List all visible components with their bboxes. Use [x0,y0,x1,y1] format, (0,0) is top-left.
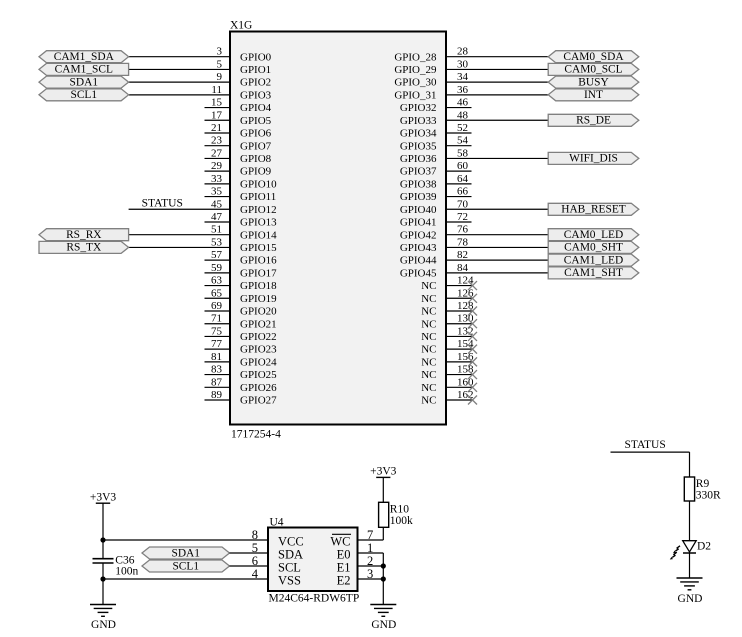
net flag CAM1_LED [548,254,639,266]
svg-text:28: 28 [457,46,469,58]
svg-text:STATUS: STATUS [142,197,183,209]
net flag WIFI_DIS [548,152,639,164]
svg-text:100n: 100n [115,566,138,578]
svg-text:GPIO22: GPIO22 [240,331,277,343]
X1G pin 27 (GPIO8) wire and labels [205,147,272,165]
svg-text:69: 69 [211,300,223,312]
wire U4 pin 2 (E1) to rail [358,565,384,567]
X1G pin 58 (GPIO36) wire and labels [400,147,548,165]
svg-text:75: 75 [211,325,223,337]
X1G pin 128 (NC) wire and labels [421,300,477,318]
power symbol +3V3 (left) [90,491,117,503]
svg-text:GPIO6: GPIO6 [240,128,272,140]
svg-text:21: 21 [211,122,222,134]
X1G pin 77 (GPIO23) wire and labels [205,338,278,356]
svg-text:GND: GND [371,619,396,631]
X1G pin 63 (GPIO18) wire and labels [205,275,278,293]
svg-text:E1: E1 [337,561,351,575]
svg-text:GPIO5: GPIO5 [240,115,272,127]
X1G pin 84 (GPIO45) wire and labels [400,262,548,280]
wire STATUS down to R9 [689,452,691,477]
junction node at E2 [381,576,386,581]
net label STATUS (right) [625,439,666,451]
svg-text:36: 36 [457,84,469,96]
svg-text:9: 9 [217,71,223,83]
X1G pin 48 (GPIO33) wire and labels [400,109,548,127]
net flag RS_TX [39,241,129,253]
net flag BUSY [548,76,639,88]
resistor R10 100k [379,502,413,527]
svg-text:34: 34 [457,71,469,83]
svg-text:GPIO2: GPIO2 [240,77,271,89]
svg-text:GPIO33: GPIO33 [400,115,437,127]
svg-text:E0: E0 [337,548,351,562]
svg-text:RS_TX: RS_TX [66,242,102,254]
svg-text:76: 76 [457,224,469,236]
X1G pin 83 (GPIO25) wire and labels [205,364,278,382]
svg-text:GPIO_29: GPIO_29 [394,64,437,76]
X1G pin 81 (GPIO24) wire and labels [205,351,278,369]
X1G pin 78 (GPIO43) wire and labels [400,236,548,254]
svg-text:GPIO21: GPIO21 [240,318,277,330]
wire R10 to U4 pin 7 (WC) [358,527,384,540]
svg-text:SDA1: SDA1 [70,76,99,88]
X1G pin 71 (GPIO21) wire and labels [205,313,277,331]
svg-text:48: 48 [457,109,469,121]
svg-text:CAM1_SHT: CAM1_SHT [564,267,623,279]
svg-text:NC: NC [421,306,436,318]
svg-text:GPIO35: GPIO35 [400,140,437,152]
X1G pin 35 (GPIO11) wire and labels [205,186,277,204]
svg-text:52: 52 [457,122,468,134]
X1G pin 124 (NC) wire and labels [421,275,477,293]
X1G pin 17 (GPIO5) wire and labels [205,109,272,127]
svg-text:BUSY: BUSY [578,76,608,88]
X1G pin 54 (GPIO35) wire and labels [400,135,472,153]
svg-text:NC: NC [421,369,436,381]
X1G pin 23 (GPIO7) wire and labels [205,135,272,153]
svg-text:81: 81 [211,351,222,363]
svg-text:GPIO20: GPIO20 [240,306,277,318]
net flag RS_DE [548,114,639,126]
net flag SDA1 [39,76,129,88]
X1G pin 69 (GPIO20) wire and labels [205,300,278,318]
svg-text:GPIO24: GPIO24 [240,356,277,368]
svg-text:47: 47 [211,211,223,223]
X1G pin 59 (GPIO17) wire and labels [205,262,278,280]
U4 part number M24C64-RDW6TP [269,592,360,604]
X1G pin 158 (NC) wire and labels [421,364,477,382]
svg-text:GPIO19: GPIO19 [240,293,277,305]
svg-text:11: 11 [211,84,222,96]
wire SCL1 flag to U4 pin 6 [230,565,269,567]
X1G pin 30 (GPIO_29) wire and labels [394,58,548,76]
net flag SCL1 [39,89,129,101]
svg-text:NC: NC [421,318,436,330]
svg-text:GPIO23: GPIO23 [240,344,277,356]
wire LED to ground [689,552,691,578]
wire +3V3 down to R10 [382,477,384,502]
svg-text:77: 77 [211,338,223,350]
svg-text:GPIO13: GPIO13 [240,217,277,229]
X1G pin 53 (GPIO15) wire and labels [129,236,278,254]
svg-text:GPIO38: GPIO38 [400,178,437,190]
svg-text:M24C64-RDW6TP: M24C64-RDW6TP [269,592,360,604]
X1G pin 64 (GPIO38) wire and labels [400,173,472,191]
X1G pin 45 (GPIO12) wire and labels [129,198,277,216]
svg-text:78: 78 [457,236,469,248]
svg-text:23: 23 [211,135,223,147]
svg-text:46: 46 [457,97,469,109]
IC X1G body [230,32,446,425]
svg-text:VCC: VCC [278,535,304,549]
svg-text:WC: WC [330,535,350,549]
wire U4 pin 3 (E2) to rail [358,578,384,580]
svg-text:70: 70 [457,198,469,210]
net label STATUS (left) [142,197,183,209]
X1G pin 130 (NC) wire and labels [421,313,477,331]
U4 pin 8 (VCC) labels [252,528,304,548]
svg-text:E2: E2 [337,574,351,588]
X1G pin 87 (GPIO26) wire and labels [205,376,278,394]
svg-text:57: 57 [211,249,223,261]
net flag HAB_RESET [548,203,639,215]
svg-text:HAB_RESET: HAB_RESET [561,204,626,216]
svg-text:CAM1_SCL: CAM1_SCL [55,64,113,76]
X1G pin 72 (GPIO41) wire and labels [400,211,472,229]
wire VSS node to U4 pin 4 [103,578,268,580]
svg-text:GPIO14: GPIO14 [240,229,277,241]
svg-text:CAM1_SDA: CAM1_SDA [54,51,115,63]
svg-text:CAM0_SCL: CAM0_SCL [564,64,622,76]
svg-text:330R: 330R [696,490,721,502]
svg-text:GPIO37: GPIO37 [400,166,437,178]
X1G pin 36 (GPIO_31) wire and labels [394,84,548,102]
svg-text:87: 87 [211,376,223,388]
svg-text:GPIO44: GPIO44 [400,255,437,267]
svg-text:NC: NC [421,280,436,292]
svg-text:INT: INT [584,89,603,101]
svg-text:U4: U4 [270,517,284,529]
svg-text:29: 29 [211,160,223,172]
svg-text:D2: D2 [697,540,711,552]
U4 pin 7 (WC) labels [330,528,373,548]
wire U4 pin 1 (E0) to ground rail [358,553,384,605]
svg-text:X1G: X1G [230,19,252,31]
svg-text:GPIO_30: GPIO_30 [394,77,437,89]
U4 pin 3 (E2) labels [337,567,374,587]
svg-text:15: 15 [211,97,223,109]
X1G pin 65 (GPIO19) wire and labels [205,287,278,305]
svg-text:17: 17 [211,109,223,121]
svg-text:GPIO34: GPIO34 [400,128,437,140]
svg-text:45: 45 [211,198,223,210]
svg-text:GPIO9: GPIO9 [240,166,272,178]
svg-text:+3V3: +3V3 [370,466,397,478]
X1G pin 3 (GPIO0) wire and labels [129,46,272,64]
X1G pin 160 (NC) wire and labels [421,376,477,394]
svg-text:GPIO25: GPIO25 [240,369,277,381]
net flag RS_RX [39,229,129,241]
svg-text:GPIO27: GPIO27 [240,395,277,407]
svg-text:RS_RX: RS_RX [66,229,102,241]
svg-text:58: 58 [457,147,469,159]
net flag INT [548,89,639,101]
wire R9 to LED D2 [689,501,691,541]
svg-text:VSS: VSS [278,574,301,588]
svg-text:27: 27 [211,147,223,159]
U4 pin 4 (VSS) labels [252,567,301,587]
IC U4 body [268,528,358,592]
svg-text:+3V3: +3V3 [90,491,117,503]
svg-text:72: 72 [457,211,468,223]
X1G pin 156 (NC) wire and labels [421,351,477,369]
svg-text:WIFI_DIS: WIFI_DIS [569,153,618,165]
svg-text:3: 3 [217,46,223,58]
X1G pin 126 (NC) wire and labels [421,287,477,305]
net flag SCL1 (to U4) [142,560,230,572]
net flag CAM0_LED [548,229,639,241]
svg-text:GPIO_28: GPIO_28 [394,51,437,63]
svg-text:NC: NC [421,356,436,368]
svg-text:GPIO43: GPIO43 [400,242,437,254]
ground symbol GND (below D2) [677,578,703,605]
svg-text:RS_DE: RS_DE [576,115,611,127]
resistor R9 330R [684,477,721,502]
X1G pin 162 (NC) wire and labels [421,389,477,407]
X1G pin 60 (GPIO37) wire and labels [400,160,472,178]
svg-text:71: 71 [211,313,222,325]
svg-text:GPIO17: GPIO17 [240,267,277,279]
U4 pin 1 (E0) labels [337,541,374,561]
svg-text:GPIO12: GPIO12 [240,204,277,216]
svg-text:59: 59 [211,262,223,274]
svg-text:CAM0_SHT: CAM0_SHT [564,242,623,254]
svg-text:GND: GND [678,593,703,605]
U4 pin 2 (E1) labels [337,554,374,574]
X1G pin 47 (GPIO13) wire and labels [205,211,278,229]
ground symbol GND (left) [90,605,116,631]
svg-text:1717254-4: 1717254-4 [231,429,281,441]
X1G pin 76 (GPIO42) wire and labels [400,224,548,242]
svg-text:5: 5 [252,541,258,555]
wire STATUS horizontal [611,451,690,453]
wire C36 down to VSS node [102,563,104,579]
svg-text:NC: NC [421,331,436,343]
svg-text:GPIO41: GPIO41 [400,217,437,229]
svg-text:GPIO15: GPIO15 [240,242,277,254]
capacitor C36 100n [93,554,139,577]
X1G pin 70 (GPIO40) wire and labels [400,198,548,216]
svg-text:R9: R9 [696,478,710,490]
net flag CAM0_SDA [548,51,639,63]
svg-text:GPIO40: GPIO40 [400,204,437,216]
X1G pin 75 (GPIO22) wire and labels [205,325,277,343]
U4 designator [270,517,284,529]
X1G pin 11 (GPIO3) wire and labels [129,84,272,102]
svg-text:4: 4 [252,567,259,581]
svg-text:84: 84 [457,262,469,274]
power symbol +3V3 (above R10) [370,466,397,478]
net flag CAM0_SHT [548,241,639,253]
svg-text:SDA1: SDA1 [172,547,201,559]
svg-text:GPIO26: GPIO26 [240,382,277,394]
svg-text:GPIO39: GPIO39 [400,191,437,203]
wire SDA1 flag to U4 pin 5 [230,552,269,554]
svg-text:GPIO1: GPIO1 [240,64,271,76]
X1G pin 57 (GPIO16) wire and labels [205,249,278,267]
X1G pin 46 (GPIO32) wire and labels [400,97,472,115]
X1G pin 21 (GPIO6) wire and labels [205,122,272,140]
U4 pin 5 (SDA) labels [252,541,303,561]
wire VCC node to U4 pin 8 [103,539,268,541]
X1G pin 132 (NC) wire and labels [421,325,477,343]
X1G pin 154 (NC) wire and labels [421,338,477,356]
svg-text:SCL1: SCL1 [71,89,98,101]
svg-text:53: 53 [211,236,223,248]
wire VSS node down to ground [102,579,104,605]
svg-text:51: 51 [211,224,222,236]
svg-text:63: 63 [211,275,223,287]
X1G pin 5 (GPIO1) wire and labels [129,58,272,76]
svg-text:GPIO45: GPIO45 [400,267,437,279]
svg-text:R10: R10 [390,504,409,516]
X1G pin 15 (GPIO4) wire and labels [205,97,272,115]
svg-text:C36: C36 [115,554,134,566]
svg-text:GPIO10: GPIO10 [240,178,277,190]
svg-text:54: 54 [457,135,469,147]
svg-text:CAM0_LED: CAM0_LED [564,229,623,241]
svg-text:GPIO3: GPIO3 [240,89,272,101]
net flag CAM1_SDA [39,51,129,63]
svg-text:SDA: SDA [278,548,303,562]
X1G pin 82 (GPIO44) wire and labels [400,249,548,267]
X1G pin 33 (GPIO10) wire and labels [205,173,278,191]
svg-text:GPIO0: GPIO0 [240,51,272,63]
svg-text:GPIO42: GPIO42 [400,229,437,241]
svg-text:NC: NC [421,395,436,407]
svg-text:33: 33 [211,173,223,185]
X1G pin 66 (GPIO39) wire and labels [400,186,472,204]
svg-text:NC: NC [421,382,436,394]
svg-text:GPIO32: GPIO32 [400,102,437,114]
X1G pin 28 (GPIO_28) wire and labels [394,46,548,64]
X1G designator [230,19,252,31]
U4 pin 6 (SCL) labels [252,554,301,574]
svg-text:GPIO18: GPIO18 [240,280,277,292]
svg-text:SCL: SCL [278,561,301,575]
X1G pin 34 (GPIO_30) wire and labels [394,71,548,89]
wire VCC node down to C36 [102,540,104,558]
junction node at E1 [381,563,386,568]
svg-text:GPIO36: GPIO36 [400,153,437,165]
junction node at C36 bottom / VSS [100,576,105,581]
svg-text:65: 65 [211,287,223,299]
svg-text:GND: GND [91,619,116,631]
net flag SDA1 (to U4) [142,547,230,559]
svg-text:GPIO_31: GPIO_31 [394,89,436,101]
svg-text:35: 35 [211,186,223,198]
X1G pin 29 (GPIO9) wire and labels [205,160,272,178]
junction node at C36 top / VCC [100,537,105,542]
net flag CAM1_SCL [39,63,129,75]
svg-text:STATUS: STATUS [625,439,666,451]
svg-text:GPIO16: GPIO16 [240,255,277,267]
svg-text:GPIO8: GPIO8 [240,153,272,165]
svg-text:82: 82 [457,249,468,261]
X1G pin 52 (GPIO34) wire and labels [400,122,472,140]
svg-text:89: 89 [211,389,223,401]
svg-text:6: 6 [252,554,258,568]
X1G part number 1717254-4 [231,429,281,441]
svg-text:8: 8 [252,528,258,542]
svg-text:5: 5 [217,58,223,70]
svg-text:GPIO4: GPIO4 [240,102,272,114]
svg-text:GPIO7: GPIO7 [240,140,272,152]
svg-text:30: 30 [457,58,469,70]
LED D2 [670,540,712,559]
wire +3V3 down to VCC node [102,503,104,540]
svg-text:66: 66 [457,186,469,198]
ground symbol GND (below U4) [370,605,396,631]
svg-text:CAM1_LED: CAM1_LED [564,254,623,266]
svg-text:NC: NC [421,344,436,356]
svg-text:60: 60 [457,160,469,172]
net flag CAM0_SCL [548,63,639,75]
net flag CAM1_SHT [548,267,639,279]
svg-text:SCL1: SCL1 [172,560,199,572]
svg-text:NC: NC [421,293,436,305]
svg-text:GPIO11: GPIO11 [240,191,276,203]
svg-text:100k: 100k [390,515,413,527]
X1G pin 51 (GPIO14) wire and labels [129,224,278,242]
svg-text:CAM0_SDA: CAM0_SDA [563,51,624,63]
svg-text:83: 83 [211,364,223,376]
svg-text:64: 64 [457,173,469,185]
X1G pin 9 (GPIO2) wire and labels [129,71,272,89]
X1G pin 89 (GPIO27) wire and labels [205,389,278,407]
